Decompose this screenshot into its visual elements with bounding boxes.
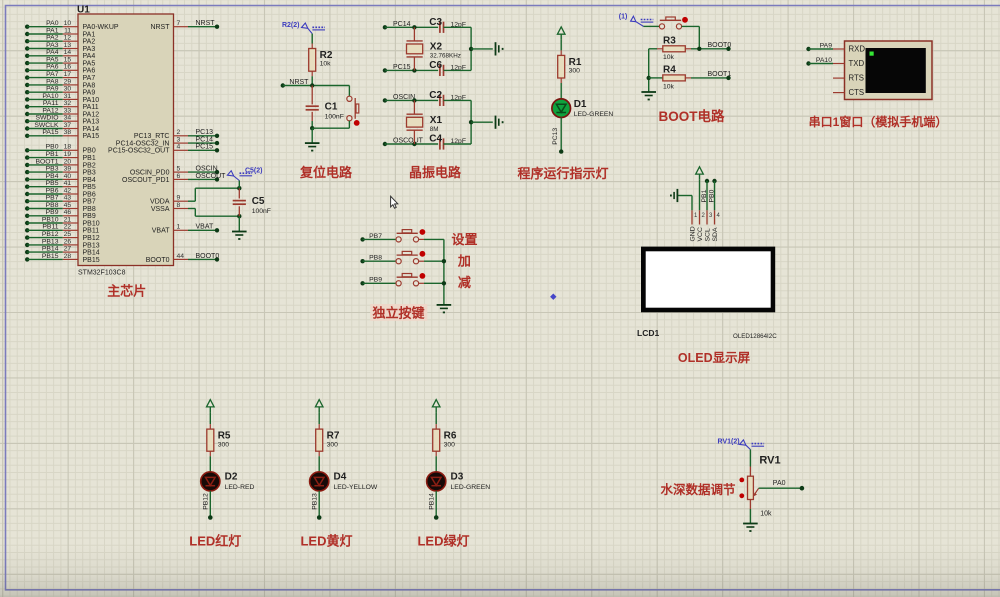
svg-text:10k: 10k [663,54,675,61]
svg-text:R7: R7 [327,431,340,442]
svg-text:PA5: PA5 [46,57,59,64]
svg-text:29: 29 [64,78,72,85]
svg-text:PA10: PA10 [83,97,100,104]
svg-text:PC15: PC15 [196,144,214,151]
svg-text:R3: R3 [663,36,676,47]
svg-text:PB5: PB5 [83,184,96,191]
svg-text:21: 21 [64,216,72,223]
svg-text:32.768KHz: 32.768KHz [430,53,461,60]
svg-text:28: 28 [64,253,72,260]
svg-text:7: 7 [177,20,181,27]
svg-text:PB12: PB12 [42,231,59,238]
svg-text:30: 30 [64,86,72,93]
svg-text:PA7: PA7 [83,75,96,82]
svg-text:OSCOUT: OSCOUT [196,173,227,180]
svg-text:PB7: PB7 [46,195,59,202]
svg-text:2: 2 [177,129,181,136]
svg-text:12: 12 [64,35,72,42]
svg-text:TXD: TXD [849,59,865,68]
svg-text:NRST: NRST [150,24,170,31]
svg-text:8M: 8M [430,126,439,133]
svg-text:LCD1: LCD1 [637,328,659,338]
svg-text:PB2: PB2 [83,162,96,169]
svg-text:OSCOUT_PD1: OSCOUT_PD1 [122,177,170,184]
svg-text:LED-RED: LED-RED [225,484,255,491]
svg-text:SDA: SDA [712,227,719,241]
svg-text:14: 14 [64,49,72,56]
svg-text:PB3: PB3 [83,170,96,177]
svg-text:CTS: CTS [849,88,865,97]
svg-text:9: 9 [177,195,181,202]
svg-text:PB7: PB7 [369,233,382,240]
svg-text:PC15-OSC32_OUT: PC15-OSC32_OUT [108,148,170,155]
svg-text:PC14: PC14 [196,137,214,144]
svg-text:PA6: PA6 [46,64,59,71]
svg-text:PB12: PB12 [202,493,209,510]
svg-text:PB14: PB14 [83,250,100,257]
svg-text:X2: X2 [430,42,443,53]
svg-text:PB11: PB11 [83,228,100,235]
svg-text:PB1: PB1 [83,155,96,162]
svg-text:R4: R4 [663,65,676,76]
svg-text:PA0-WKUP: PA0-WKUP [83,24,119,31]
svg-text:C1: C1 [325,102,338,113]
svg-text:D2: D2 [225,471,238,482]
svg-text:PA13: PA13 [83,119,100,126]
svg-text:PB9: PB9 [83,213,96,220]
svg-text:PA9: PA9 [46,86,59,93]
svg-text:PA0: PA0 [773,480,786,487]
svg-text:300: 300 [444,441,456,448]
svg-text:VDDA: VDDA [150,199,170,206]
svg-text:PB15: PB15 [42,253,59,260]
svg-text:300: 300 [569,68,581,75]
svg-text:NRST: NRST [196,20,216,27]
svg-text:46: 46 [64,209,72,216]
svg-text:PC13: PC13 [552,128,559,145]
svg-text:串口1窗口（模拟手机端）: 串口1窗口（模拟手机端） [809,114,948,129]
svg-text:PA15: PA15 [83,133,100,140]
svg-text:PB5: PB5 [46,180,59,187]
svg-text:PB4: PB4 [46,173,59,180]
svg-text:PA10: PA10 [42,93,58,100]
svg-text:BOOT0: BOOT0 [708,42,732,49]
svg-text:VSSA: VSSA [151,206,170,213]
svg-text:10: 10 [64,20,72,27]
svg-text:27: 27 [64,246,72,253]
svg-text:STM32F103C8: STM32F103C8 [78,270,126,277]
svg-text:PC15: PC15 [393,64,411,71]
svg-text:13: 13 [64,42,72,49]
svg-text:PA5: PA5 [83,61,96,68]
svg-text:SCL: SCL [704,228,711,241]
svg-text:U1: U1 [77,5,90,16]
svg-text:BOOT电路: BOOT电路 [659,108,725,124]
svg-text:6: 6 [177,173,181,180]
svg-text:PA7: PA7 [46,71,59,78]
svg-text:独立按键: 独立按键 [372,306,424,321]
svg-text:设置: 设置 [451,232,477,247]
svg-text:R2(2): R2(2) [282,22,300,29]
svg-text:PB8: PB8 [46,202,59,209]
svg-text:34: 34 [64,115,72,122]
svg-text:PB14: PB14 [42,246,59,253]
svg-text:RV1: RV1 [759,454,780,466]
svg-text:水深数据调节: 水深数据调节 [660,482,736,497]
svg-text:PC13: PC13 [196,129,214,136]
svg-text:(1): (1) [619,13,628,20]
svg-text:33: 33 [64,107,72,114]
svg-text:BOOT0: BOOT0 [196,253,220,260]
svg-text:PB13: PB13 [42,238,59,245]
svg-text:C6: C6 [429,60,442,71]
svg-text:37: 37 [64,122,72,129]
svg-text:PA15: PA15 [42,129,58,136]
svg-text:VBAT: VBAT [196,224,214,231]
svg-text:LED-GREEN: LED-GREEN [451,484,491,491]
svg-text:R6: R6 [444,431,457,442]
svg-text:C3: C3 [429,17,442,28]
svg-text:R2: R2 [320,50,333,61]
svg-text:D1: D1 [574,99,587,110]
svg-text:42: 42 [64,187,72,194]
svg-text:PA9: PA9 [820,42,833,49]
svg-text:PB13: PB13 [311,493,318,510]
svg-text:PA4: PA4 [46,49,59,56]
svg-text:10k: 10k [760,511,772,518]
svg-text:C2: C2 [429,90,442,101]
svg-text:RXD: RXD [849,44,866,53]
svg-text:PA8: PA8 [83,82,96,89]
svg-text:OSCIN: OSCIN [196,166,218,173]
svg-text:BOOT0: BOOT0 [146,257,170,264]
svg-text:RV1(2): RV1(2) [718,439,740,446]
svg-text:PC13_RTC: PC13_RTC [134,133,170,140]
svg-text:PC14: PC14 [393,21,411,28]
svg-text:PB6: PB6 [46,187,59,194]
svg-text:PC14-OSC32_IN: PC14-OSC32_IN [116,141,170,148]
svg-text:8: 8 [177,202,181,209]
svg-text:PB10: PB10 [42,216,59,223]
svg-text:LED-GREEN: LED-GREEN [574,111,614,118]
svg-text:OLED显示屏: OLED显示屏 [678,351,751,365]
svg-text:SWDIO: SWDIO [35,115,58,122]
svg-text:BOOT1: BOOT1 [708,71,732,78]
svg-text:10k: 10k [663,83,675,90]
svg-text:PB11: PB11 [42,224,58,231]
svg-text:38: 38 [64,129,72,136]
svg-text:11: 11 [64,27,71,34]
svg-text:5: 5 [177,166,181,173]
svg-text:PA1: PA1 [83,31,96,38]
svg-text:3: 3 [177,137,181,144]
svg-text:PA9: PA9 [83,90,96,97]
svg-text:PB9: PB9 [369,277,382,284]
svg-text:PB8: PB8 [83,206,96,213]
svg-text:16: 16 [64,64,72,71]
svg-text:PA4: PA4 [83,53,96,60]
svg-text:SWCLK: SWCLK [34,122,59,129]
svg-text:PA2: PA2 [83,39,96,46]
svg-text:PA3: PA3 [83,46,96,53]
svg-text:C5: C5 [252,196,265,207]
svg-text:31: 31 [64,93,72,100]
svg-text:41: 41 [64,180,72,187]
svg-text:BOOT1: BOOT1 [35,158,58,165]
svg-text:PA14: PA14 [83,126,100,133]
svg-text:减: 减 [458,275,471,290]
svg-text:OSCIN: OSCIN [393,94,415,101]
svg-text:100nF: 100nF [252,208,271,215]
svg-text:19: 19 [64,151,72,158]
svg-text:300: 300 [218,441,230,448]
svg-text:18: 18 [64,144,72,151]
svg-text:OLED12864I2C: OLED12864I2C [733,333,777,340]
svg-text:D3: D3 [451,471,464,482]
svg-text:VCC: VCC [697,227,704,241]
svg-text:主芯片: 主芯片 [107,284,146,299]
svg-text:26: 26 [64,238,72,245]
svg-text:PB0: PB0 [83,148,96,155]
svg-text:复位电路: 复位电路 [299,165,353,180]
svg-text:NRST: NRST [289,79,309,86]
svg-text:OSCOUT: OSCOUT [393,138,424,145]
svg-text:PB15: PB15 [83,257,100,264]
svg-text:PA11: PA11 [83,104,99,111]
svg-text:15: 15 [64,57,72,64]
svg-text:PB13: PB13 [83,242,100,249]
svg-text:40: 40 [64,173,72,180]
svg-text:PA6: PA6 [83,68,96,75]
svg-text:PA2: PA2 [46,35,59,42]
svg-text:32: 32 [64,100,72,107]
svg-text:44: 44 [177,253,185,260]
svg-text:PB0: PB0 [708,189,715,202]
svg-text:PB8: PB8 [369,255,382,262]
svg-text:PA8: PA8 [46,78,59,85]
svg-text:PB9: PB9 [46,209,59,216]
svg-text:PA10: PA10 [816,57,832,64]
svg-text:加: 加 [457,253,471,268]
svg-text:VBAT: VBAT [152,228,170,235]
svg-text:PB3: PB3 [46,166,59,173]
svg-text:300: 300 [327,441,339,448]
svg-text:100nF: 100nF [325,114,344,121]
svg-text:43: 43 [64,195,72,202]
svg-text:17: 17 [64,71,72,78]
svg-text:OSCIN_PD0: OSCIN_PD0 [130,170,170,177]
svg-text:45: 45 [64,202,72,209]
svg-text:R5: R5 [218,431,231,442]
svg-text:PA12: PA12 [42,107,58,114]
svg-text:C5(2): C5(2) [245,167,263,174]
svg-text:10k: 10k [320,61,332,68]
svg-text:PB7: PB7 [83,199,96,206]
svg-text:PA11: PA11 [43,100,59,107]
svg-text:GND: GND [689,226,696,241]
svg-text:PB0: PB0 [46,144,59,151]
svg-text:PB1: PB1 [46,151,59,158]
svg-text:R1: R1 [569,57,582,68]
svg-text:PB12: PB12 [83,235,100,242]
svg-text:1: 1 [177,224,181,231]
svg-text:X1: X1 [430,115,443,126]
svg-text:20: 20 [64,158,72,165]
svg-text:22: 22 [64,224,72,231]
svg-text:LED-YELLOW: LED-YELLOW [334,484,378,491]
svg-text:PA3: PA3 [46,42,59,49]
svg-text:PB1: PB1 [701,189,708,202]
svg-text:程序运行指示灯: 程序运行指示灯 [517,166,608,181]
svg-text:D4: D4 [334,471,347,482]
svg-text:RTS: RTS [849,74,864,83]
svg-text:PB4: PB4 [83,177,96,184]
svg-text:PB10: PB10 [83,220,100,227]
svg-text:晶振电路: 晶振电路 [409,165,462,180]
svg-text:PB6: PB6 [83,191,96,198]
svg-text:PB14: PB14 [428,493,435,510]
svg-text:C4: C4 [429,134,442,145]
svg-text:PA12: PA12 [83,111,100,118]
svg-text:39: 39 [64,166,72,173]
svg-text:4: 4 [177,144,181,151]
svg-text:PA0: PA0 [46,20,59,27]
svg-text:PA1: PA1 [46,27,59,34]
svg-text:25: 25 [64,231,72,238]
